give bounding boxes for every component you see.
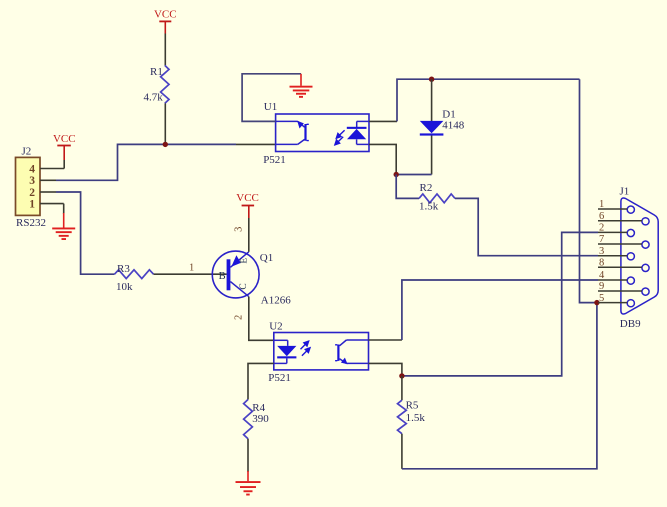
wire U1 top-right lead to top rail (369, 120, 397, 122)
wire node D to DB9 pin 2 (402, 232, 598, 376)
J2 pin 4 stub (40, 168, 64, 170)
diode D1 (4148) (420, 79, 465, 174)
ground (J2 pin 1) (52, 228, 75, 241)
junction node E (DB9 pin 5) (594, 300, 599, 305)
svg-text:2: 2 (29, 187, 35, 199)
U2 light arrows (301, 341, 311, 356)
svg-text:R1: R1 (150, 66, 163, 78)
wire R1 bottom to node A (164, 103, 166, 144)
J1 pin circle 2 (627, 229, 634, 236)
wire U2 anode-side bottom to R4 (248, 363, 274, 399)
wire Q1 collector (pin 2) to U2 anode (249, 297, 274, 341)
svg-text:R2: R2 (420, 182, 433, 194)
wire R3 to Q1 base (154, 273, 227, 275)
U2 phototransistor (335, 340, 368, 364)
resistor R1 (144, 65, 170, 103)
wire R4 to ground (247, 439, 249, 472)
wire U2 collector to DB9 pin 4 (369, 339, 402, 341)
wire Q1 emitter (pin 3) (248, 218, 250, 252)
resistor R3 (115, 263, 154, 293)
ground (R4) (236, 481, 261, 495)
U1 LED (emitter diode) (347, 121, 369, 144)
svg-text:Q1: Q1 (260, 252, 273, 264)
J1 pin circle 9 (642, 288, 649, 295)
svg-text:7: 7 (599, 234, 604, 245)
wire VCC to R1 top (164, 34, 166, 66)
connector J2 body (16, 145, 46, 229)
J1 pin 3 lead (598, 255, 627, 257)
svg-text:DB9: DB9 (620, 318, 641, 330)
U1 light arrows (335, 130, 345, 145)
resistor R4 (244, 400, 270, 439)
J2 pin 1 stub (40, 203, 64, 205)
wire node A to U1 cathode lead (236, 143, 276, 145)
wire top rail (U1.4 / D1 / DB9.5) (397, 79, 580, 121)
wire U1 bottom-right lead to node C (369, 144, 396, 174)
wire J2 pin 1 to ground (63, 204, 65, 214)
power symbol VCC (top, above R1) (154, 9, 177, 34)
svg-text:5: 5 (599, 293, 604, 304)
svg-text:J1: J1 (620, 186, 630, 198)
J1 pin 7 lead (598, 243, 642, 245)
op-to-coupler U1 box (P521) (263, 101, 369, 166)
svg-text:3: 3 (599, 246, 604, 257)
svg-text:C: C (239, 283, 249, 289)
svg-text:4: 4 (599, 270, 605, 281)
svg-text:6: 6 (599, 211, 604, 222)
transistor Q1 (PNP A1266) (212, 251, 291, 306)
opto-coupler U2 box (P521) (268, 321, 368, 385)
svg-text:R5: R5 (406, 400, 419, 412)
svg-text:A1266: A1266 (261, 294, 291, 306)
resistor R5 (398, 376, 426, 434)
J1 pin circle 7 (642, 241, 649, 248)
U2 LED (emitter diode) (274, 340, 297, 363)
J1 pin 8 lead (598, 266, 642, 268)
wire U2 emitter to node D (369, 363, 402, 376)
svg-text:1: 1 (189, 263, 194, 274)
junction node D (U2.3 / R5 / net) (399, 373, 404, 378)
resistor R2 (419, 182, 455, 213)
J1 pin circle 1 (627, 206, 634, 213)
wire VCC stem to J2 pin 4 stub (63, 160, 65, 169)
J1 pin 6 lead (598, 220, 642, 222)
svg-text:1.5k: 1.5k (419, 201, 439, 213)
wire J2 pin 3 to node A (net to U1) (56, 144, 236, 180)
J1 pin circle 4 (627, 277, 634, 284)
svg-text:P521: P521 (268, 372, 291, 384)
svg-text:4148: 4148 (442, 120, 465, 132)
svg-text:VCC: VCC (53, 133, 76, 145)
svg-text:VCC: VCC (154, 9, 177, 21)
svg-text:J2: J2 (22, 145, 32, 157)
J1 pin 1 lead (598, 208, 627, 210)
svg-text:R3: R3 (117, 263, 130, 275)
svg-text:2: 2 (599, 223, 604, 234)
ground (U1 top) (290, 74, 313, 98)
J1 pin circle 6 (642, 218, 649, 225)
svg-text:4.7k: 4.7k (144, 92, 164, 104)
svg-text:E: E (240, 258, 250, 264)
wire top rail down to DB9 pin 5 (580, 79, 597, 302)
svg-text:P521: P521 (263, 154, 286, 166)
svg-text:R4: R4 (252, 402, 265, 414)
J1 pin circle 3 (627, 253, 634, 260)
J1 pin circle 8 (642, 264, 649, 271)
svg-text:1: 1 (599, 199, 604, 210)
svg-text:8: 8 (599, 258, 604, 269)
svg-text:9: 9 (599, 281, 604, 292)
U1 phototransistor (276, 121, 309, 145)
connector J1 DB9 outline (620, 186, 659, 330)
svg-text:RS232: RS232 (16, 217, 46, 229)
svg-text:U2: U2 (269, 321, 282, 333)
svg-text:U1: U1 (264, 101, 277, 113)
svg-text:1: 1 (29, 198, 35, 210)
wire U1 top-left lead to ground loop (242, 74, 301, 122)
J1 pin 9 lead (598, 290, 642, 292)
J1 pin circle 5 (627, 300, 634, 307)
wire J2 pin 2 to R3 (56, 192, 115, 274)
J1 pin 5 lead (598, 302, 627, 304)
power symbol VCC (at Q1 emitter) (236, 192, 259, 218)
svg-text:VCC: VCC (236, 192, 259, 204)
svg-text:390: 390 (252, 413, 269, 425)
svg-text:3: 3 (233, 227, 244, 232)
svg-text:1.5k: 1.5k (406, 412, 426, 424)
J1 pin 4 lead (598, 279, 627, 281)
J2 pin 3 stub (40, 179, 56, 181)
junction node A (R1 / J2.3 / U1) (163, 142, 168, 147)
svg-text:4: 4 (29, 163, 35, 175)
wire node C down to R2 (396, 175, 419, 199)
power symbol VCC (at J2 pin 4) (53, 133, 76, 160)
svg-text:B: B (219, 271, 226, 282)
junction node C (U1.3 / D1 / R2) (394, 172, 399, 177)
junction node B (rail / D1 anode) (429, 77, 434, 82)
svg-text:10k: 10k (116, 281, 133, 293)
J2 pin 2 stub (40, 191, 56, 193)
wire node C to D1 cathode (396, 174, 431, 176)
wire R2 to DB9 pin 3 (455, 198, 598, 255)
wire R5 bottom to DB9 pin 5 (bottom run) (401, 434, 403, 469)
J1 pin 2 lead (598, 231, 627, 233)
svg-text:2: 2 (233, 315, 244, 320)
svg-text:3: 3 (29, 175, 35, 187)
